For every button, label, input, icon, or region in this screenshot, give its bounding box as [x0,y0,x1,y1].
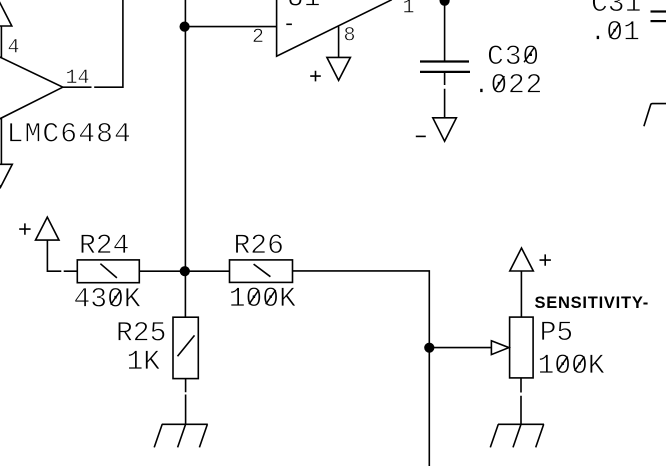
wire net to op-amp U1 input [185,26,277,28]
svg-text:1: 1 [403,0,415,19]
R24 slash [100,264,117,278]
wire P5 bottom (with gap) [520,378,522,424]
capacitor C31 plates (right edge, partial) [651,10,666,12]
slash in 0 of C30 [524,48,534,62]
plus sign near pin 8 triangle [310,71,321,82]
junction dot C [180,266,190,276]
wire supply to R24 [47,240,77,271]
wiper arrow [491,341,509,355]
resistor R25 box [173,317,198,378]
power + triangle (top-left, partial) [0,3,12,26]
wire V- pin [0,118,2,164]
V- down triangle (bottom-left, partial) [0,164,12,187]
slashes in 0s of 100K [249,290,259,304]
chassis ground R25 [154,424,208,447]
op-amp U? LMC6484 (left, partially cut) [0,54,63,122]
svg-text:100K: 100K [229,284,296,315]
svg-text:LMC6484: LMC6484 [7,119,132,150]
svg-text:430K: 430K [74,285,141,316]
slash in 0 of 430K [111,290,121,304]
svg-text:2: 2 [252,26,264,49]
plus sign near P5 supply [540,254,551,265]
svg-text:P5: P5 [540,318,574,349]
partial symbol at right edge [644,104,666,127]
wire pin 4 supply [0,26,2,59]
wire P5 top [520,271,522,317]
svg-text:R26: R26 [234,231,284,262]
R25 slash [178,335,195,356]
R26 slash [254,264,271,277]
wire vertical net x=185 [184,0,186,317]
junction dot A [180,22,190,32]
svg-text:R24: R24 [79,231,129,262]
wire R24 to R26 through junction [139,270,229,272]
svg-text:4: 4 [8,37,20,60]
chassis ground P5 [490,424,544,447]
wire op1 output to top [63,0,123,87]
potentiometer P5 box [510,317,533,378]
capacitor C30 plate 2 [420,71,470,73]
minus label near C30 ground [416,135,426,137]
slashes in 0s of 100K [558,357,568,371]
svg-text:U1: U1 [287,0,321,15]
svg-text:8: 8 [344,25,356,48]
svg-text:.01: .01 [590,18,640,49]
svg-text:R25: R25 [116,319,166,350]
resistor R26 box [230,260,293,283]
svg-text:SENSITIVITY-: SENSITIVITY- [535,294,649,312]
wire C30 top [444,0,446,61]
junction dot D [424,343,434,353]
svg-text:100K: 100K [538,351,605,382]
V- down triangle below C30 [433,118,457,141]
svg-text:C30: C30 [487,42,540,73]
resistor R24 box [77,260,139,283]
svg-text:.022: .022 [473,70,543,101]
wire C30 bottom [444,73,446,118]
power + triangle above P5 [510,248,534,271]
junction dot B (top edge, clipped) [440,0,450,6]
slash in 0 of .01 [610,23,620,37]
wire R25 bottom (with gap) [185,379,187,425]
V+ down triangle at pin 8 [327,57,351,80]
capacitor C30 plate 1 [420,60,469,62]
wire R26 right then down [293,271,430,466]
minus input label [286,23,292,25]
wire wiper [429,347,491,349]
slash in 0 of .022 [495,76,505,90]
op-amp U1 body (top, partially cut) [277,0,392,56]
plus sign near R24 supply [19,223,30,234]
svg-text:1K: 1K [127,347,161,378]
wire pin 8 stub [338,27,340,58]
power + triangle above R24 [36,217,60,240]
